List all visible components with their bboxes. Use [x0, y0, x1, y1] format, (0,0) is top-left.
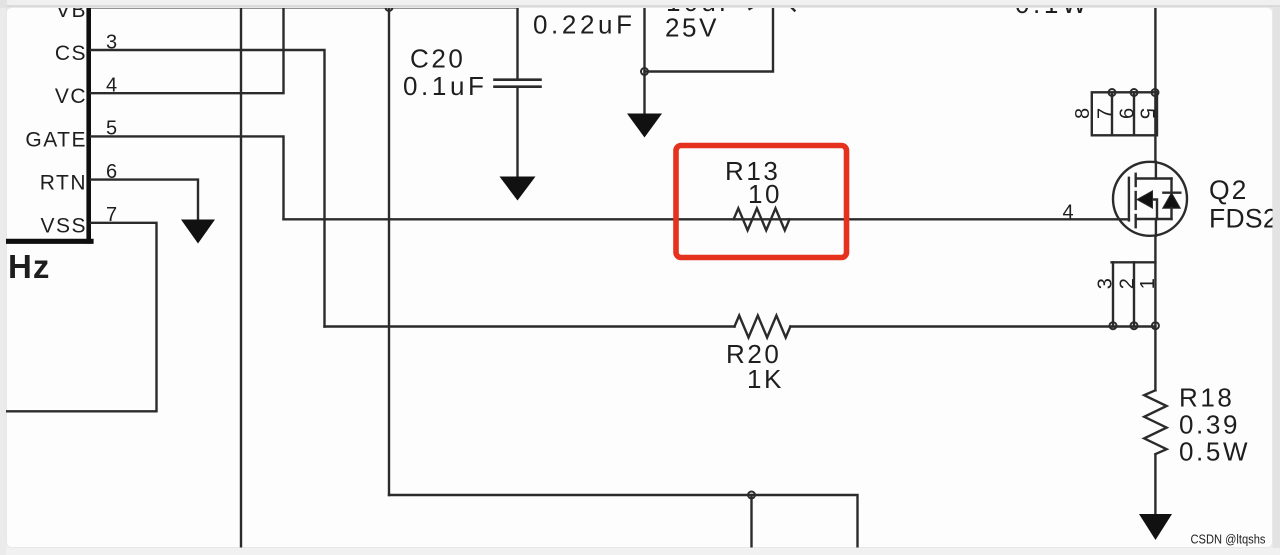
svg-text:25V: 25V	[665, 13, 719, 43]
wire	[325, 325, 735, 327]
wire	[389, 495, 858, 547]
wire	[1154, 455, 1156, 514]
svg-text:GATE: GATE	[25, 128, 87, 151]
svg-text:C20: C20	[410, 44, 466, 74]
capacitor C? top remnant	[750, 4, 758, 9]
svg-text:7: 7	[106, 204, 117, 226]
ground	[500, 177, 536, 201]
node A	[386, 4, 393, 11]
svg-text:CSDN @ltqshs: CSDN @ltqshs	[1191, 532, 1266, 547]
svg-text:7: 7	[1095, 108, 1117, 119]
svg-text:8: 8	[1072, 108, 1094, 119]
svg-text:6: 6	[1117, 108, 1139, 119]
svg-text:0.5W: 0.5W	[1179, 437, 1250, 467]
wire	[91, 8, 284, 93]
resistor R20	[735, 316, 791, 338]
IC U1 controller (pins VB CS VC GATE RTN VSS)	[6, 8, 91, 241]
ground	[627, 114, 662, 138]
wire	[388, 8, 390, 496]
svg-text:6: 6	[106, 161, 117, 183]
wire	[645, 8, 774, 72]
svg-text:1: 1	[1137, 278, 1159, 289]
red highlight box around R13	[676, 146, 847, 258]
node C	[641, 68, 648, 75]
capacitor C20	[495, 7, 541, 176]
wire	[1154, 8, 1156, 162]
wire	[240, 8, 242, 547]
svg-text:R18: R18	[1179, 383, 1235, 413]
svg-text:4: 4	[106, 75, 117, 97]
wire	[91, 180, 198, 220]
wire	[750, 495, 752, 547]
svg-text:5: 5	[1136, 108, 1158, 119]
wire	[1154, 236, 1156, 390]
wire	[284, 218, 1129, 220]
svg-text:VC: VC	[55, 85, 87, 108]
connector J2 pins 3-1	[1110, 262, 1159, 329]
wire	[91, 6, 518, 8]
capacitor C? top remnant 2	[789, 5, 795, 11]
ground	[1139, 514, 1172, 540]
svg-text:0.1uF: 0.1uF	[403, 71, 488, 101]
resistor R18	[1144, 390, 1166, 454]
wire	[91, 50, 325, 327]
svg-text:RTN: RTN	[40, 172, 87, 195]
svg-text:CS: CS	[55, 42, 87, 65]
wire	[643, 8, 645, 114]
svg-text:4: 4	[1063, 202, 1074, 224]
transistor Q2	[1113, 162, 1187, 236]
node B	[748, 492, 755, 499]
wire	[791, 325, 1156, 327]
svg-text:VSS: VSS	[40, 214, 87, 237]
wire	[91, 136, 284, 219]
svg-text:2: 2	[1117, 278, 1139, 289]
svg-text:0.22uF: 0.22uF	[533, 10, 636, 40]
connector J1 pins 8-5	[1092, 89, 1159, 135]
svg-text:0.39: 0.39	[1179, 410, 1240, 440]
svg-text:3: 3	[1095, 278, 1117, 289]
resistor R13	[734, 208, 790, 230]
svg-text:Hz: Hz	[8, 248, 50, 285]
wire	[6, 223, 157, 411]
svg-text:1K: 1K	[747, 364, 784, 394]
ground	[181, 220, 215, 244]
svg-text:3: 3	[106, 32, 117, 54]
svg-text:5: 5	[106, 118, 117, 140]
svg-text:Q2: Q2	[1209, 175, 1248, 205]
svg-text:FDS2: FDS2	[1209, 204, 1278, 234]
svg-text:10: 10	[748, 179, 782, 209]
